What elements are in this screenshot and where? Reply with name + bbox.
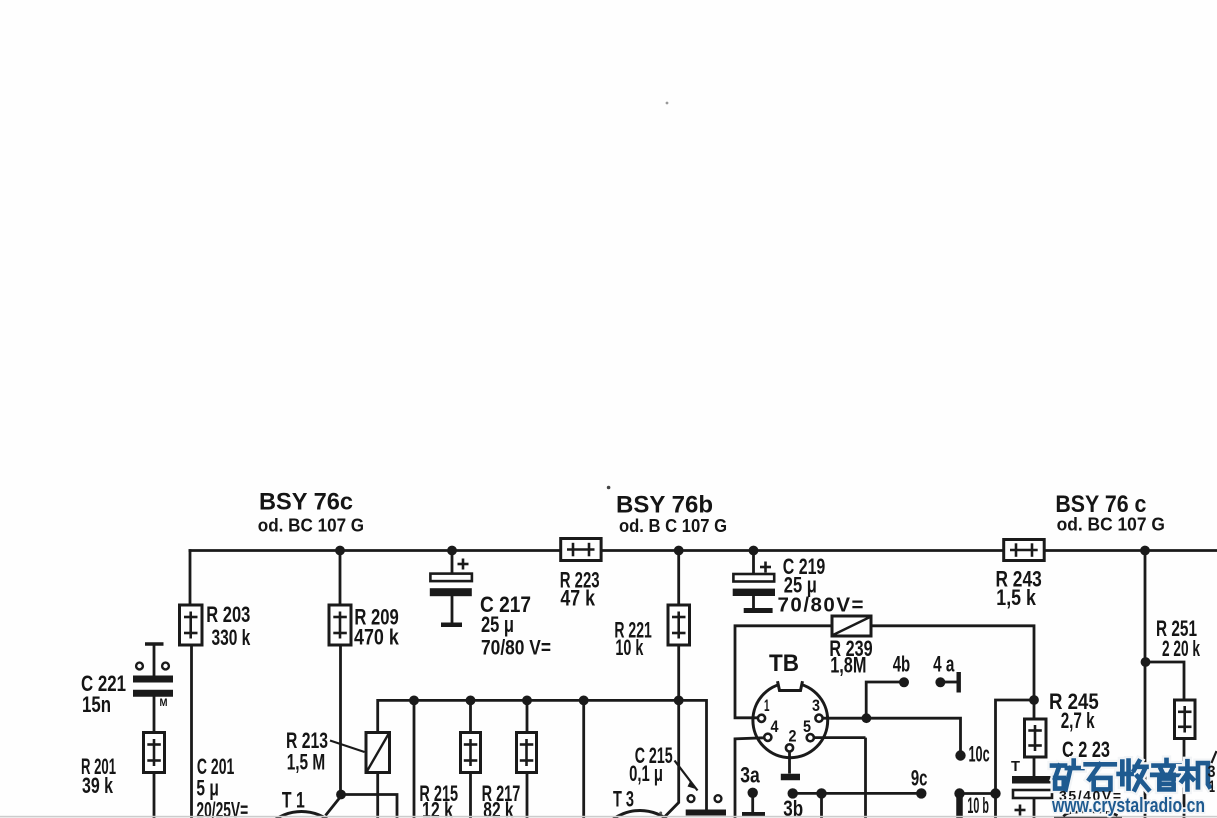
svg-text:4b: 4b (893, 651, 911, 676)
wire R239 right to R245 (871, 626, 1034, 700)
wire R209 top lead (339, 551, 342, 607)
bottom page edge line (0, 816, 1217, 818)
svg-text:20/25V=: 20/25V= (196, 798, 248, 818)
capacitor C221 plates (133, 679, 173, 693)
resistor R215 (461, 733, 481, 773)
svg-text:10 k: 10 k (615, 635, 643, 660)
wire pin4 drop (735, 738, 764, 818)
svg-text:47 k: 47 k (560, 585, 595, 610)
svg-text:39 k: 39 k (82, 773, 113, 798)
watermark glyph kuang (1052, 761, 1082, 790)
node R245 top (1029, 695, 1039, 705)
transistor T1 (255, 812, 348, 818)
wire T3 collector drop (582, 700, 585, 818)
node R221 bus (674, 546, 684, 556)
svg-text:M: M (160, 697, 168, 709)
wire pin5 to right (815, 736, 866, 739)
svg-text:od. BC 107 G: od. BC 107 G (1057, 514, 1165, 534)
wire R217 top stem (526, 700, 529, 733)
svg-text:T 3: T 3 (613, 787, 634, 812)
svg-text:TB: TB (769, 650, 799, 677)
capacitor C217 electrolytic (430, 559, 472, 625)
speck above BSY 76b (607, 486, 611, 490)
wire C221 bottom stem (153, 696, 156, 734)
svg-text:R 203: R 203 (206, 602, 250, 627)
resistor R223 (561, 539, 601, 561)
node C219 bus (749, 546, 759, 556)
svg-text:15n: 15n (82, 692, 111, 717)
svg-text:82 k: 82 k (483, 798, 514, 818)
svg-text:4 a: 4 a (933, 651, 955, 676)
svg-text:70/80 V=: 70/80 V= (481, 637, 551, 660)
capacitor C223 electrolytic (1012, 776, 1052, 816)
svg-text:www.crystalradio.cn: www.crystalradio.cn (1051, 795, 1205, 817)
wire C221 top stem (153, 644, 156, 676)
svg-text:12 k: 12 k (422, 798, 453, 818)
resistor R221 (668, 605, 690, 645)
wire R215 bottom stem (469, 772, 472, 818)
svg-text:470 k: 470 k (354, 625, 399, 650)
node 10c (955, 750, 965, 760)
resistor R245 (1025, 719, 1047, 757)
resistor R239 (adjustable) (832, 616, 871, 636)
wire T1 collector drop (413, 700, 416, 818)
ground pin2 bar (781, 774, 800, 781)
wire C223 bottom stem (1033, 797, 1036, 818)
svg-text:70/80V=: 70/80V= (778, 594, 864, 617)
node R251 junction (1141, 657, 1151, 667)
resistor R217 (517, 733, 537, 773)
watermark crystalradio logo (1052, 760, 1209, 789)
svg-text:od. B C 107 G: od. B C 107 G (619, 516, 727, 536)
wire R245 bottom stem (1033, 756, 1036, 777)
svg-text:od. BC 107 G: od. BC 107 G (258, 516, 364, 536)
wire 10b link (960, 792, 996, 795)
watermark glyph yin (1152, 760, 1181, 789)
node 10b left (954, 788, 964, 798)
resistor R201 (144, 733, 165, 773)
node pin3 junction (862, 713, 872, 723)
ground 3a bar (742, 812, 765, 817)
wire R215 top stem (469, 700, 472, 733)
wire 4b branch (866, 682, 900, 718)
wire base rail mid (378, 699, 707, 702)
node rail R213 (409, 696, 419, 706)
wire C217 top lead (451, 549, 454, 574)
pointer R213 (330, 741, 365, 753)
node 4a (935, 677, 945, 687)
node 3a (748, 788, 758, 798)
resistor R213 (adjustable) (366, 733, 390, 773)
resistor R203 (180, 605, 203, 645)
node rail T3 (579, 696, 589, 706)
svg-text:1,5 M: 1,5 M (287, 750, 326, 775)
svg-text:1: 1 (764, 696, 770, 715)
node T1 base (336, 790, 346, 800)
svg-text:1,8M: 1,8M (830, 653, 866, 678)
page edge dark segment (1054, 817, 1122, 818)
watermark glyph shi (1086, 764, 1115, 789)
svg-text:4: 4 (771, 717, 779, 736)
node R209 bus (335, 546, 345, 556)
wire R213 bottom stem (376, 772, 379, 818)
pointer C215 arrow (675, 761, 698, 791)
node right collector bus (1140, 546, 1150, 556)
wire 3b drop (820, 793, 823, 818)
svg-text:2: 2 (789, 727, 797, 746)
svg-text:10c: 10c (969, 742, 990, 767)
svg-text:330 k: 330 k (212, 625, 251, 650)
wire pin5 vertical drop (864, 738, 867, 818)
wire pin3 to 10c (823, 718, 961, 752)
resistor R243 (1004, 540, 1044, 561)
speck T3 (659, 812, 662, 815)
transistor T3 (595, 811, 686, 818)
terminal 4a bar (957, 672, 961, 693)
node 10b right (990, 788, 1000, 798)
wire right transistor collector (1144, 549, 1147, 818)
svg-text:5: 5 (803, 717, 811, 736)
wire T1 base diagonal (326, 798, 340, 816)
wire T3 base drop (665, 700, 679, 816)
svg-text:25 μ: 25 μ (481, 612, 514, 637)
capacitor C221 trimmer circles (136, 663, 169, 670)
svg-text:1,5 k: 1,5 k (996, 585, 1036, 610)
wire R201 bottom stem (153, 772, 156, 818)
resistor R251 (1175, 700, 1196, 739)
node rail R215 (466, 696, 476, 706)
node 3b drop (816, 788, 826, 798)
wire 3a stem (751, 794, 754, 812)
watermark glyph ji (1181, 761, 1210, 789)
svg-text:10 b: 10 b (967, 793, 989, 818)
socket TB (753, 679, 828, 758)
node 4b (899, 677, 909, 687)
speck upper (666, 102, 669, 105)
wire C217 bottom lead (451, 596, 454, 625)
svg-text:2,7 k: 2,7 k (1061, 708, 1095, 733)
wire main supply bus (189, 549, 1217, 552)
capacitor C215 trimmer (686, 795, 726, 812)
svg-text:9c: 9c (911, 766, 928, 791)
wire 10b thick stub (956, 794, 963, 818)
watermark glyph shou (1119, 761, 1149, 790)
wire C219 top lead (752, 549, 755, 575)
node rail R217 (522, 696, 532, 706)
svg-text:T 1: T 1 (282, 788, 305, 813)
svg-text:0,1 μ: 0,1 μ (629, 761, 663, 786)
wire R203 top lead (189, 549, 192, 606)
resistor R209 (329, 605, 351, 645)
wire R209 bottom lead (339, 644, 342, 795)
wire R221 top lead (677, 549, 680, 606)
svg-text:BSY 76c: BSY 76c (259, 489, 353, 516)
wire R217 bottom stem (526, 772, 529, 818)
wire T1 base horizontal (341, 795, 397, 818)
wire pin2 stem (788, 751, 791, 774)
wire C215 stem (705, 699, 708, 811)
transistor bottom right arc (1064, 812, 1118, 817)
wire R251 top branch (1145, 662, 1184, 701)
node C217 bus (447, 546, 457, 556)
svg-text:T: T (1011, 758, 1020, 775)
wire R203 bottom lead / C201 lead (190, 644, 193, 818)
svg-text:BSY 76b: BSY 76b (616, 492, 713, 519)
wire R245 left branch (996, 700, 1035, 818)
node rail R221 (674, 696, 684, 706)
svg-text:3: 3 (812, 696, 820, 715)
svg-text:3a: 3a (740, 762, 760, 787)
svg-text:1: 1 (1209, 777, 1215, 796)
wire R245 top stem (1033, 699, 1036, 720)
node 3b (788, 788, 798, 798)
wire 3b to 9c (793, 792, 922, 795)
wire R221 bottom lead (677, 644, 680, 700)
svg-text:3b: 3b (783, 796, 803, 818)
wire R239 left to pin1 (735, 626, 832, 718)
wire R213 top stem (376, 699, 379, 734)
wire R251 bottom stem (1183, 738, 1186, 818)
capacitor C221 top bar (145, 642, 164, 646)
wire C219 bottom lead (752, 596, 755, 610)
wire 4a stub (944, 681, 957, 684)
capacitor C219 electrolytic (733, 562, 775, 611)
node 9c (916, 788, 926, 798)
wire edge base diagonal (1212, 751, 1217, 763)
svg-text:2 20 k: 2 20 k (1162, 636, 1200, 661)
